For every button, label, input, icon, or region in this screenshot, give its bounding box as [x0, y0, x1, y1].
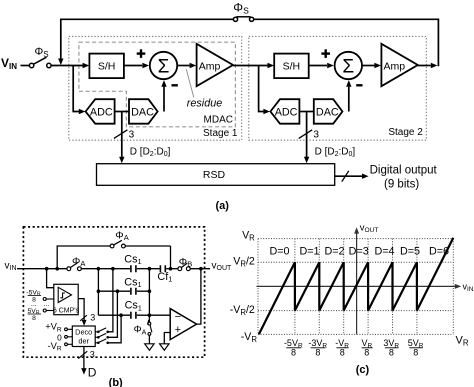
svg-text:3: 3	[90, 350, 95, 360]
wire top reset branch	[57, 246, 170, 269]
grid vertical -VR/8	[343, 239, 345, 335]
wire RSD output	[335, 175, 362, 177]
svg-text:(9 bits): (9 bits)	[384, 178, 419, 190]
ADC1 block	[86, 99, 115, 124]
svg-text:(a): (a)	[215, 200, 229, 212]
block S/H stage 1	[89, 54, 124, 79]
ground under PHI_A prime switch	[145, 344, 154, 350]
junction row2 left	[97, 289, 101, 293]
svg-text:...: ...	[43, 301, 49, 308]
svg-text:S/H: S/H	[98, 60, 116, 72]
svg-text:8: 8	[291, 348, 296, 358]
wire DAC1 to summer1 minus input	[163, 87, 165, 112]
svg-text:Deco: Deco	[75, 327, 92, 336]
grid horizontal VR/2	[258, 261, 453, 263]
svg-text:Amp: Amp	[199, 60, 221, 72]
wire opamp output to vOUT node	[197, 269, 201, 324]
DAC1 block	[129, 99, 158, 124]
svg-text:Stage 1: Stage 1	[203, 128, 238, 139]
bus slash stage1	[114, 130, 128, 139]
svg-text:(b): (b)	[109, 377, 123, 387]
DAC2 block	[314, 99, 343, 124]
wire rows tie vertical	[97, 269, 99, 316]
bus slash stage2	[299, 130, 313, 139]
svg-text:8: 8	[315, 348, 320, 358]
capacitor Cf1	[160, 265, 165, 272]
svg-text:Stage 2: Stage 2	[388, 127, 423, 138]
grid vertical left edge	[257, 239, 259, 335]
summer U2 sigma	[335, 52, 362, 79]
junction summing node	[148, 267, 152, 271]
junction row2 right	[148, 289, 152, 293]
bus slash cmp out	[80, 315, 87, 321]
svg-text:8: 8	[364, 348, 369, 358]
wire decoder D output	[83, 347, 85, 369]
junction top branch right	[169, 267, 173, 271]
junction opamp output node	[199, 267, 203, 271]
wire D bus stage1 down to RSD	[121, 112, 123, 158]
svg-text:Digital output: Digital output	[370, 164, 438, 176]
svg-text:DAC: DAC	[131, 107, 154, 119]
wire decoder sw2 to Cs1 row2	[108, 291, 118, 337]
svg-text:8: 8	[32, 315, 36, 322]
svg-text:D=4: D=4	[374, 246, 394, 258]
wire feedback drop into input node	[60, 19, 62, 59]
grid vertical VR/8	[367, 239, 369, 335]
svg-text:8: 8	[389, 348, 394, 358]
switch PHI_A top	[110, 240, 125, 248]
decoder switch 1	[95, 331, 97, 333]
decoder ref inputs	[65, 328, 68, 331]
circuit b dashed border box	[23, 227, 204, 357]
svg-text:−: −	[175, 311, 181, 323]
svg-text:...: ...	[31, 301, 37, 308]
switch PHI_S input	[29, 57, 51, 67]
RSD block	[97, 164, 335, 186]
junction row1 decoder drop	[111, 267, 115, 271]
wire branch to ADC2	[259, 66, 264, 112]
svg-text:D=1: D=1	[299, 246, 319, 258]
sawtooth transfer curve	[259, 238, 453, 334]
wire main line to Cs1	[81, 268, 130, 270]
wire row3	[98, 314, 170, 316]
bus slash decoder out	[78, 351, 87, 358]
residue pointer line	[186, 69, 194, 97]
capacitor Cs1 row2	[131, 288, 136, 295]
wire switch to S/H with arrow	[51, 65, 83, 67]
svg-text:Amp: Amp	[384, 60, 406, 72]
grid vertical -3VR/8	[318, 239, 320, 335]
wire comparator output to decoder	[78, 299, 84, 320]
bus slash RSD output	[342, 171, 349, 182]
wire summer2 to amp2	[362, 65, 374, 67]
wire summer1 to amp1	[178, 65, 190, 67]
switch PHI_B	[178, 263, 190, 271]
wire DAC2 to summer2 minus input	[348, 87, 350, 112]
wire ADC1 to DAC1	[115, 111, 129, 113]
svg-text:3: 3	[313, 130, 319, 141]
wire branch to ADC1	[73, 66, 79, 112]
x axis vIN	[257, 285, 456, 287]
label minus stage1	[172, 84, 178, 86]
wire ADC2 to DAC2	[299, 111, 313, 113]
svg-text:D=6: D=6	[429, 246, 449, 258]
svg-text:der: der	[78, 337, 89, 346]
grid horizontal -VR	[258, 333, 453, 335]
junction row3 right	[148, 313, 152, 317]
svg-text:DAC: DAC	[316, 107, 339, 119]
svg-text:MDAC: MDAC	[204, 115, 233, 126]
MDAC inner dashed box	[79, 42, 236, 127]
grid vertical right edge	[452, 239, 454, 335]
svg-text:ADC: ADC	[90, 107, 113, 119]
label plus stage1	[137, 49, 146, 58]
svg-text:8: 8	[413, 348, 418, 358]
junction cmp tap	[45, 267, 49, 271]
wire Cs1 to Cf1	[137, 268, 160, 270]
wire summing node vertical	[148, 269, 150, 322]
svg-text:Σ: Σ	[158, 57, 170, 78]
svg-text:Σ: Σ	[342, 57, 354, 78]
grid horizontal -VR/2	[258, 310, 453, 312]
junction row2 decoder drop	[116, 289, 120, 293]
op-amp A1 Amp	[197, 44, 233, 86]
wire Cf1 to switch PHI_B	[166, 268, 178, 270]
ground at opamp plus input	[160, 344, 169, 350]
svg-text:+: +	[175, 324, 181, 336]
op-amp A2 Amp	[381, 44, 417, 86]
block S/H stage 2	[274, 54, 309, 79]
svg-text:(c): (c)	[356, 364, 370, 376]
label minus stage2	[356, 84, 362, 86]
svg-text:D=3: D=3	[349, 246, 369, 258]
y axis vOUT	[356, 233, 358, 335]
decoder switch 3	[95, 342, 97, 344]
wire S/H1 to summer	[124, 65, 142, 67]
svg-text:8: 8	[340, 348, 345, 358]
svg-text:D=0: D=0	[269, 246, 289, 258]
wire to vOUT	[190, 268, 210, 270]
junction top branch tap	[55, 267, 59, 271]
svg-text:residue: residue	[187, 98, 222, 110]
wire decoder sw3 to Cs1 row3	[108, 315, 121, 343]
svg-text:ADC: ADC	[275, 107, 298, 119]
wire VIN lead	[21, 65, 30, 67]
svg-text:3: 3	[90, 313, 95, 323]
switch PHI_S feedback	[233, 17, 253, 22]
wire feedback top to input	[60, 18, 233, 20]
wire opamp plus input to ground	[164, 333, 170, 344]
wire comparator input tap	[47, 269, 54, 288]
capacitor Cs1 row3	[131, 312, 136, 319]
decoder switch 2	[95, 336, 97, 338]
wire decoder sw1 to Cs1 row1	[108, 269, 113, 332]
svg-text:6 CMP's: 6 CMP's	[53, 308, 80, 315]
op-amp b	[170, 309, 196, 340]
comparator block 6 CMPs	[54, 284, 78, 314]
svg-text:0: 0	[57, 332, 62, 342]
stage 2 outer dotted box	[249, 36, 426, 140]
grid horizontal VR	[258, 238, 453, 240]
wire S/H2 to summer2	[309, 65, 327, 67]
svg-text:D=2: D=2	[324, 246, 344, 258]
grid vertical -5VR/8	[294, 239, 296, 335]
comparator ref input top	[43, 298, 46, 301]
summer U1 sigma	[150, 52, 177, 79]
wire amp2 output to feedback corner	[418, 65, 431, 67]
svg-text:RSD: RSD	[203, 169, 226, 181]
switch PHI_A main	[67, 262, 81, 270]
stage 1 outer dotted box	[69, 36, 242, 140]
comparator ref input bottom	[43, 309, 46, 312]
junction row3 decoder drop	[119, 313, 123, 317]
wire row2	[98, 290, 149, 292]
wire switch to ground	[148, 336, 150, 344]
svg-text:S/H: S/H	[283, 60, 301, 72]
wire D bus stage2 down to RSD	[306, 112, 308, 158]
grid vertical 3VR/8	[392, 239, 394, 335]
junction rows tie	[97, 267, 101, 271]
svg-text:3: 3	[129, 130, 135, 141]
wire amp1 to stage2 with arrow	[233, 65, 268, 67]
capacitor Cs1 row1	[131, 265, 136, 272]
svg-text:D: D	[88, 365, 97, 379]
svg-text:D=5: D=5	[400, 246, 420, 258]
switch PHI_A prime to ground	[148, 322, 152, 335]
wire feedback top loop	[254, 19, 439, 66]
ADC2 block	[270, 99, 299, 124]
wire main input line	[17, 268, 67, 270]
decoder block	[72, 326, 95, 347]
label plus stage2	[321, 49, 330, 58]
grid vertical 5VR/8	[416, 239, 418, 335]
